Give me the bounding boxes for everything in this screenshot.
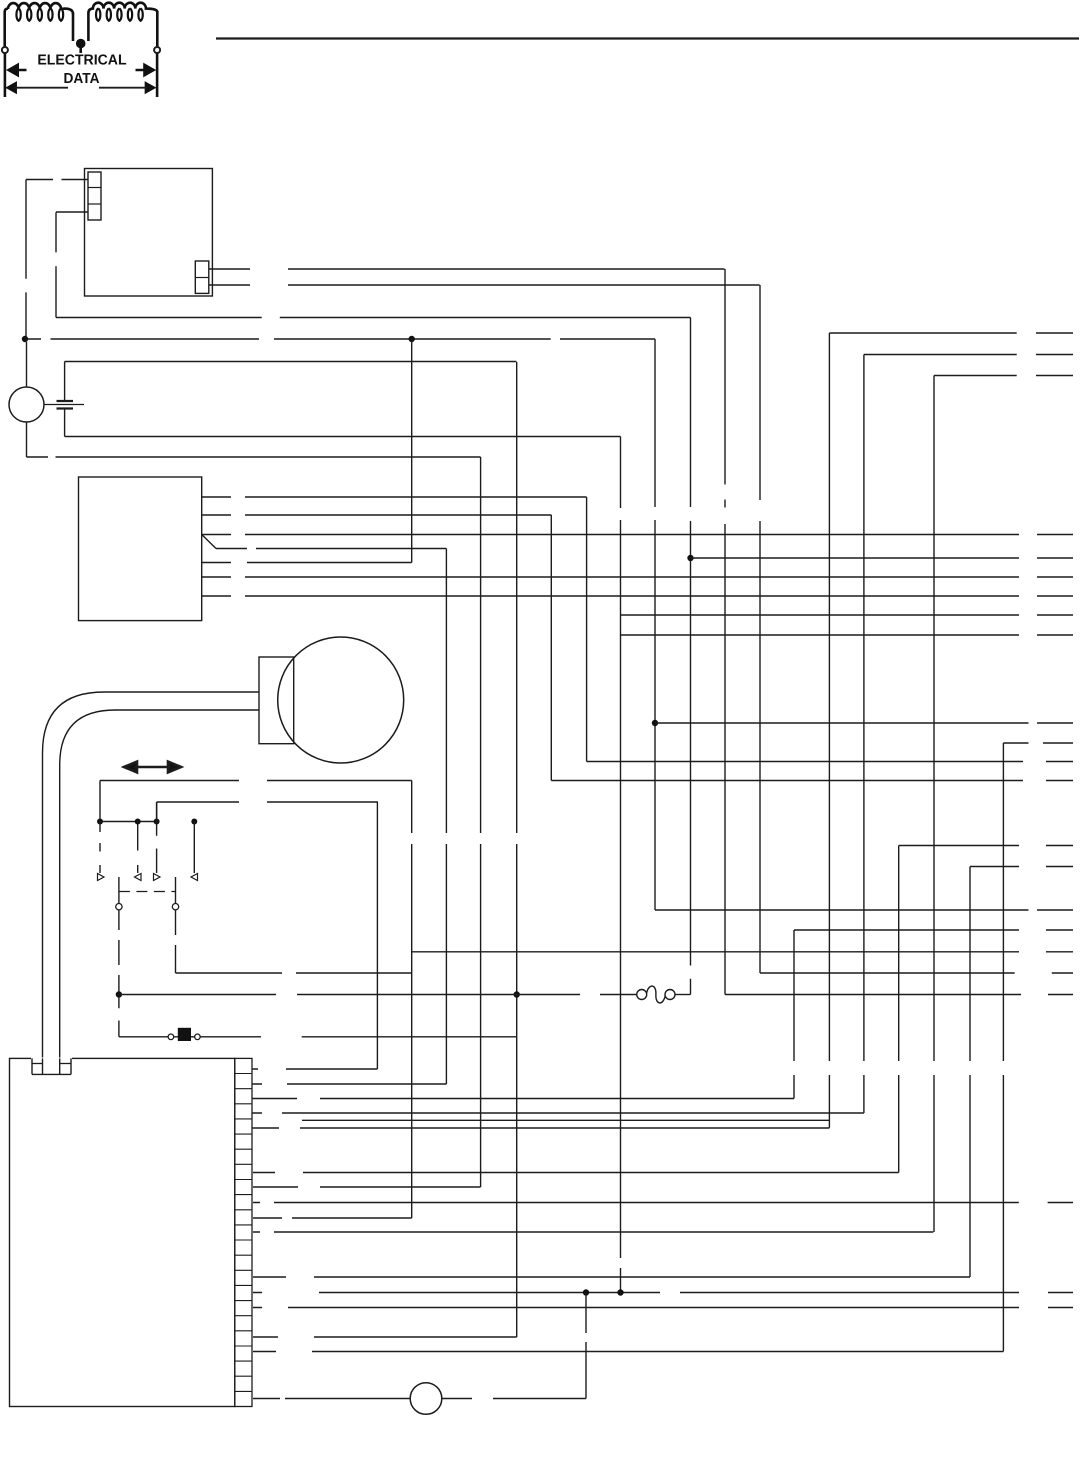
center tap junction	[76, 39, 86, 49]
wire switch common	[100, 821, 157, 823]
wire J1 pin3 left	[56, 211, 88, 213]
wire comb pin5	[252, 1127, 829, 1129]
wire below pivot1	[118, 910, 120, 992]
bus y973 right	[760, 972, 1073, 974]
junction x516 fuse line	[514, 991, 520, 997]
breaker F2 left terminal	[637, 990, 647, 1000]
junction fuse feed	[116, 991, 122, 997]
wire drop x1003	[1002, 743, 1004, 1352]
wire U2 pin4	[202, 562, 412, 564]
bus y952	[412, 951, 1073, 953]
tube end in collar inner	[59, 1058, 61, 1074]
wire comb pin8	[253, 1202, 1073, 1204]
condenser C1 bottom plate	[57, 407, 74, 409]
bus y845	[899, 845, 1073, 847]
bus y615	[621, 614, 1074, 616]
wire drop x725	[724, 269, 726, 995]
wire comb pin6	[253, 1172, 899, 1174]
wire down from J1 pin3	[55, 212, 57, 317]
switch pivot 1	[116, 904, 122, 910]
wire U2 pin5 bus	[202, 576, 1073, 578]
coil center tap right	[87, 13, 90, 41]
bus stub y333	[829, 332, 1073, 334]
wire comb pin12	[253, 1292, 1073, 1294]
wire contact 2	[137, 822, 139, 874]
wire condenser bottom loop	[65, 436, 621, 438]
connector J1 on U1 left	[88, 172, 101, 220]
wire U2 pin3 bus	[202, 534, 1073, 536]
wire J2 pin2 right	[209, 284, 760, 286]
wire drop x447	[445, 549, 447, 1085]
svg-text:DATA: DATA	[64, 71, 100, 87]
wire below pivot2	[175, 910, 177, 973]
logo upper-right arrow	[136, 65, 154, 76]
wire drop x760	[759, 285, 761, 973]
switch contact arrow 1	[98, 874, 105, 881]
wire drop x412 upper	[411, 339, 413, 563]
alternator stator block	[259, 657, 294, 744]
J1 cell divider	[88, 203, 101, 205]
center tap stem	[79, 44, 82, 54]
logo lower arrow right head	[145, 82, 154, 93]
logo left terminal	[2, 47, 8, 53]
wire drop x899	[898, 846, 900, 1173]
horn H1	[410, 1383, 442, 1415]
logo lower arrow left head	[7, 82, 16, 93]
tube end in collar outer	[42, 1058, 44, 1074]
wire drop x829	[828, 333, 830, 1128]
handlebar arrow symbol	[124, 762, 181, 773]
junction x621 bottom	[617, 1289, 623, 1295]
bus y910	[655, 909, 1073, 911]
condenser C1 top plate	[57, 400, 74, 402]
wire comb pin3	[252, 1098, 794, 1100]
wire switch pole1 drop	[99, 781, 101, 822]
coil center tap left	[72, 13, 75, 41]
svg-text:ELECTRICAL: ELECTRICAL	[37, 52, 126, 68]
top horizontal rule	[216, 37, 1079, 39]
bus stub y354	[864, 354, 1073, 356]
wire drop x481	[480, 457, 482, 1187]
wire below junction	[118, 997, 120, 1037]
logo right lead	[156, 11, 159, 46]
main harness unit U3	[10, 1058, 235, 1406]
coil winding left petals	[16, 8, 63, 20]
J2 cell divider	[195, 277, 209, 279]
main fuse F1 left terminal	[168, 1034, 174, 1040]
wire comb pin13	[253, 1307, 1073, 1309]
coil winding right petals	[96, 8, 143, 20]
ignition coil B1	[9, 387, 44, 422]
bus y558 from junction	[691, 557, 1074, 559]
main fuse F1 right terminal	[195, 1034, 201, 1040]
wire drop x412 lower	[411, 781, 413, 1219]
wire comb pin9	[253, 1217, 412, 1219]
coil winding left arches	[5, 3, 73, 14]
wire comb pin16 horn circuit	[253, 1398, 586, 1400]
wire U2 jog run	[216, 548, 446, 550]
logo: ELECTRICAL DATA coil emblem	[2, 3, 160, 97]
switch blade 1	[118, 877, 120, 903]
wire link y1120	[302, 1119, 829, 1121]
wire drop x586	[586, 497, 588, 762]
wire U2 pin2	[202, 514, 552, 516]
logo right terminal	[154, 47, 160, 53]
switch blade 2	[175, 877, 177, 903]
wire switch feed top	[100, 780, 412, 782]
bus stub y375	[934, 375, 1073, 377]
wire comb pin4	[252, 1112, 864, 1114]
harness tube inner	[60, 710, 259, 1074]
wire comb pin14	[253, 1336, 517, 1338]
breaker F2 right terminal	[665, 990, 675, 1000]
bus y994 right	[725, 994, 1073, 996]
wire coil top	[26, 342, 28, 387]
junction switch d	[191, 819, 197, 825]
wire bus from x56	[56, 317, 691, 319]
wire node A down-left	[25, 180, 27, 337]
wire contact 3	[156, 802, 158, 873]
wire breaker to drop	[675, 994, 691, 996]
wire condenser top loop	[65, 361, 517, 363]
junction x690 bus	[687, 555, 693, 561]
wire riser x794	[793, 930, 795, 1099]
logo upper-left arrow	[8, 65, 26, 76]
wire riser x377	[376, 802, 378, 1069]
wire coil to condenser	[44, 404, 84, 406]
wire J2 pin1 right	[209, 268, 725, 270]
logo right border	[156, 53, 159, 97]
wire J1 top to node A	[26, 179, 88, 181]
wire contact 1	[99, 822, 101, 874]
connector comb on U3 right edge	[235, 1058, 252, 1406]
logo left lead	[3, 11, 6, 46]
junction switch a	[97, 819, 103, 825]
junction node A	[22, 336, 28, 342]
wire horn riser x586	[585, 1293, 587, 1399]
logo lower arrow line	[14, 87, 147, 89]
harness tube outer	[43, 692, 260, 1074]
wire drop x516	[516, 362, 518, 1337]
wire comb pin1	[252, 1068, 377, 1070]
bus y780	[551, 780, 1073, 782]
bus y761	[587, 761, 1073, 763]
wire drop x551	[550, 515, 552, 781]
wire drop x864	[863, 355, 865, 1114]
wire fuse feed	[119, 994, 637, 996]
wire U2 pin6 bus	[202, 595, 1073, 597]
wire drop x655	[654, 339, 656, 910]
wire comb pin15	[253, 1351, 1003, 1353]
switch mechanical link (dashed)	[119, 891, 176, 893]
junction x655	[652, 720, 658, 726]
junction switch c	[154, 819, 160, 825]
wire coil bottom	[26, 422, 28, 457]
breaker F2 element	[647, 986, 666, 1003]
junction at x412	[409, 336, 415, 342]
wire drop x690	[690, 318, 692, 995]
wire drop x934	[933, 376, 935, 1233]
bus y866	[970, 866, 1073, 868]
bus y635	[621, 634, 1074, 636]
collar divider right	[60, 1063, 71, 1065]
wire comb pin7	[253, 1186, 481, 1188]
switch pivot 2	[172, 904, 178, 910]
junction switch b	[135, 819, 141, 825]
wire switch out lower	[176, 972, 412, 974]
wire drop x970	[969, 867, 971, 1278]
coil winding right arches	[88, 3, 157, 13]
junction horn riser	[583, 1289, 589, 1295]
bus y743	[1003, 742, 1073, 744]
wire condenser up	[64, 362, 66, 401]
J1 cell divider	[88, 187, 101, 189]
wire comb pin10	[253, 1231, 933, 1233]
wire U2 pin3 jog	[202, 535, 216, 549]
switch contact arrow 3	[154, 874, 161, 881]
switch contact arrow 2	[135, 874, 142, 881]
bus y930	[794, 929, 1073, 931]
logo left border	[4, 53, 7, 97]
harness collar	[31, 1058, 72, 1076]
wire condenser down	[64, 410, 66, 437]
connector J2 on U1 right	[195, 261, 209, 293]
wire to main fuse	[119, 1036, 517, 1038]
wire contact 4	[193, 822, 195, 874]
alternator rotor M1	[278, 637, 404, 763]
wire U2 pin1	[202, 496, 587, 498]
bus y723	[655, 722, 1073, 724]
regulator unit U2	[79, 477, 202, 621]
CDI unit U1	[85, 169, 213, 297]
wire switch pole3 drop	[156, 802, 158, 822]
switch contact arrow 4	[191, 874, 198, 881]
wire comb pin2	[252, 1083, 446, 1085]
main fuse F1 body	[178, 1028, 191, 1041]
collar divider left	[32, 1063, 43, 1065]
wire drop x621	[620, 437, 622, 1293]
wire comb pin11	[253, 1276, 970, 1278]
wire coil return	[27, 456, 481, 458]
wire switch feed lower	[157, 801, 378, 803]
wire node A bus	[25, 338, 655, 340]
